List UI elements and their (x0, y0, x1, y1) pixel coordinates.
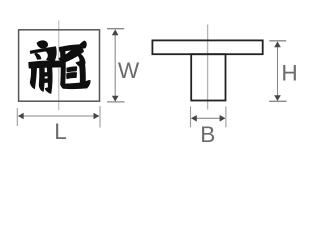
svg-text:H: H (281, 60, 297, 85)
svg-text:W: W (118, 58, 140, 83)
svg-text:B: B (200, 122, 215, 147)
svg-text:L: L (54, 119, 67, 144)
